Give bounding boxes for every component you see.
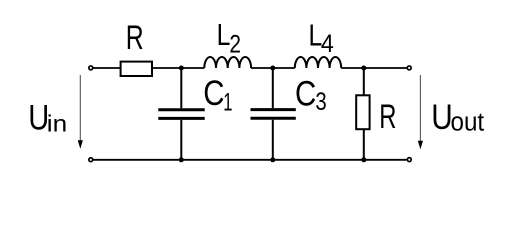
label L4: [309, 18, 323, 52]
label C3: [295, 74, 316, 113]
wire: L4 to output terminal: [341, 67, 406, 69]
svg-text:U: U: [431, 98, 452, 137]
output terminal bottom (open circle): [407, 158, 411, 162]
capacitor C3 top lead wire: [272, 68, 274, 108]
node junction bottom of C3: [270, 157, 275, 162]
svg-text:3: 3: [315, 87, 326, 116]
U_out arrow shaft: [419, 75, 421, 141]
node junction top of C1: [179, 66, 184, 71]
label L2: [217, 18, 231, 52]
wire bottom rail: [93, 159, 406, 161]
resistor R (series, horizontal box): [121, 62, 152, 76]
svg-text:4: 4: [321, 30, 334, 58]
capacitor C1 top lead wire: [180, 68, 182, 108]
capacitor C1 plates: [158, 108, 204, 111]
resistor R load top lead wire: [363, 68, 365, 95]
output terminal top (open circle): [407, 66, 411, 70]
label U_out: [431, 98, 452, 137]
svg-text:2: 2: [229, 29, 241, 57]
node junction bottom of R load: [361, 157, 366, 162]
inductor L2 (4 humps): [204, 57, 251, 68]
input terminal bottom (open circle): [89, 158, 93, 162]
U_in arrow head: [78, 140, 83, 149]
resistor R load (vertical box): [356, 95, 369, 129]
label R (series resistor): [126, 20, 144, 58]
node junction top of R load: [361, 66, 366, 71]
capacitor C1 bottom lead wire: [180, 120, 182, 160]
svg-text:out: out: [451, 108, 485, 137]
svg-text:L: L: [217, 18, 231, 52]
svg-text:1: 1: [223, 88, 232, 116]
wire: resistor R to inductor L2: [153, 67, 204, 69]
svg-text:in: in: [47, 112, 67, 137]
svg-text:C: C: [203, 74, 224, 113]
svg-text:R: R: [126, 20, 144, 58]
U_out arrow head: [418, 141, 423, 149]
svg-text:R: R: [379, 98, 396, 136]
node junction top of C3: [270, 66, 275, 71]
input terminal top (open circle): [89, 66, 93, 70]
capacitor C3 plates: [251, 108, 296, 111]
U_in arrow shaft: [79, 75, 81, 141]
node junction bottom of C1: [179, 157, 184, 162]
resistor R load bottom lead wire: [363, 129, 365, 160]
label C1: [203, 74, 224, 113]
label R (load resistor): [379, 98, 396, 136]
wire top: input terminal to resistor R: [93, 67, 120, 69]
inductor L4 (4 humps): [295, 57, 341, 68]
wire: L2 to L4: [251, 67, 295, 69]
capacitor C3 bottom lead wire: [272, 120, 274, 160]
svg-text:C: C: [295, 74, 316, 113]
label U_in: [28, 98, 49, 137]
